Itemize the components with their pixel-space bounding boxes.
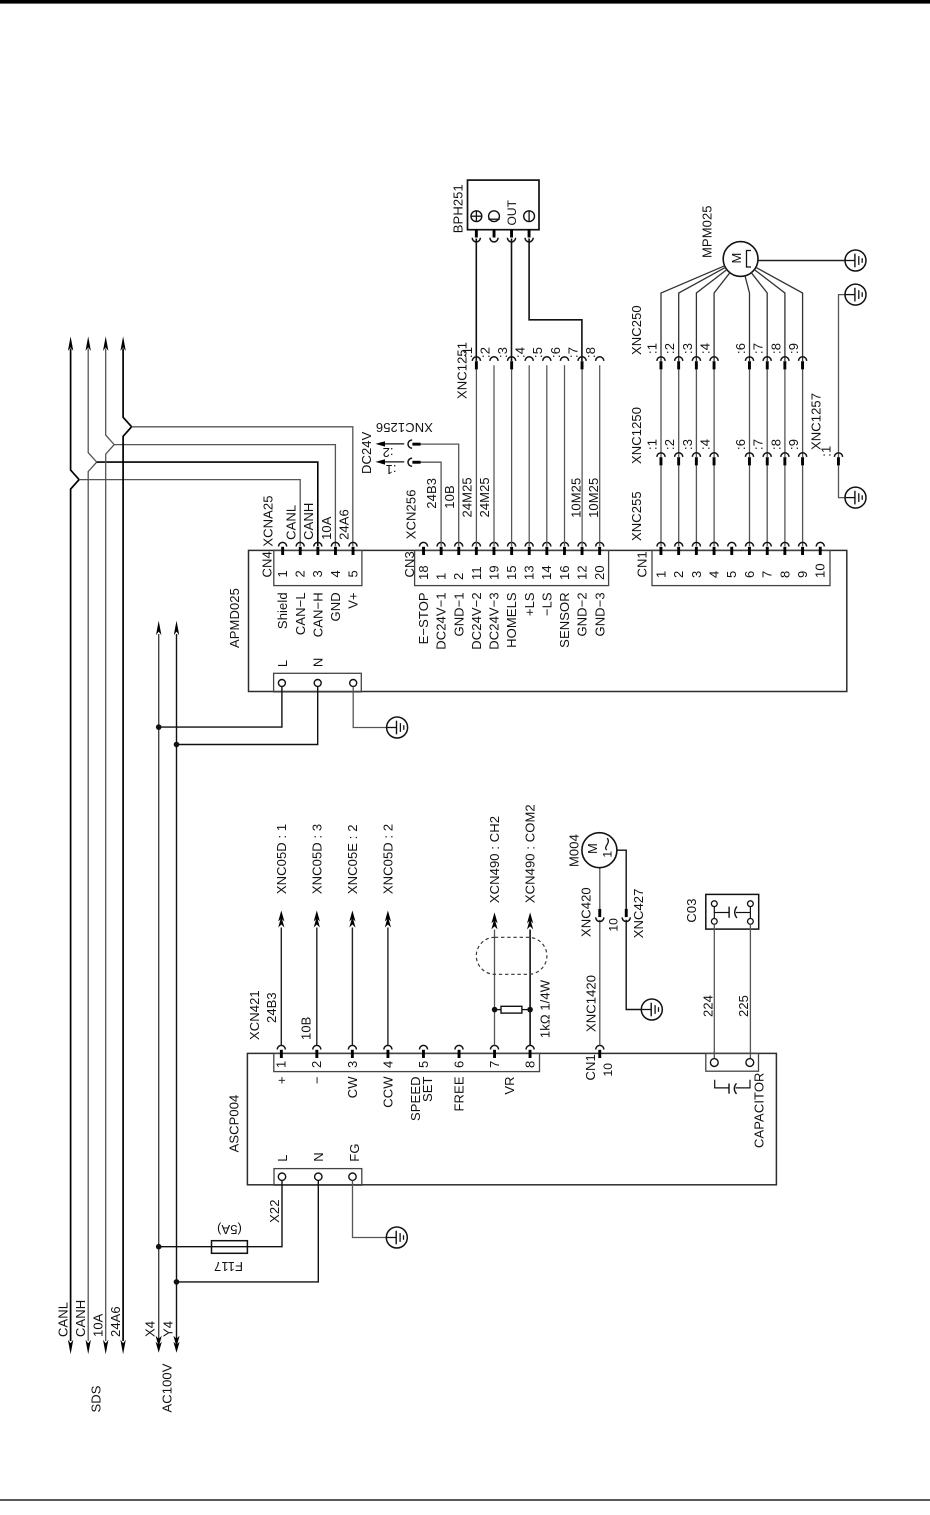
svg-text:4: 4 (380, 1061, 395, 1068)
connector XNC250:3 (692, 357, 700, 361)
svg-text::4: :4 (698, 343, 713, 354)
svg-text:10A: 10A (90, 1313, 105, 1337)
node X4-L junction (156, 724, 162, 730)
svg-text::8: :8 (768, 439, 783, 450)
wire C03 225 (749, 924, 751, 1058)
bus arrow bottom 24A6 (120, 1340, 125, 1355)
svg-text:CANL: CANL (284, 505, 299, 540)
svg-text:8: 8 (523, 1061, 538, 1068)
wire BPH+ to XNC1251:1 (475, 239, 477, 362)
wire XNC1250-CN1 :4 (713, 465, 715, 546)
wire Y4 (176, 634, 178, 1341)
svg-text:7: 7 (487, 1061, 502, 1068)
wire arrow lead :2 (385, 443, 404, 445)
pin XCN421-4 (384, 1045, 392, 1049)
connector CN3 strip (415, 550, 609, 585)
svg-text:4: 4 (707, 571, 722, 578)
svg-text:C03: C03 (684, 898, 699, 922)
arrow Y4 top (174, 621, 179, 636)
wire branch 24A6 to CN4 (132, 427, 353, 546)
pin CN4-3 (314, 542, 322, 546)
svg-text::6: :6 (733, 439, 748, 450)
wire XCN421-8 up (529, 930, 531, 1046)
wire XNC1257 upper (839, 295, 846, 457)
svg-text:3: 3 (310, 570, 325, 577)
node Y4-N2 junction (174, 1279, 180, 1285)
svg-text:CN4: CN4 (259, 551, 274, 577)
svg-text:CANL: CANL (55, 1302, 70, 1337)
pin CN3-18 (419, 542, 427, 546)
connector XNC250:4 (710, 357, 718, 361)
pin CN4-2 (296, 542, 304, 546)
wire XNC427 to earth (626, 920, 641, 1010)
pin CN1-10 ASCP (596, 1045, 604, 1049)
wire XNC1251:7 to CN3 (581, 369, 583, 546)
wire motor fan 8 (756, 267, 803, 361)
wire motor fan 6 (751, 273, 767, 361)
bus arrow bottom 10A (103, 1340, 108, 1355)
pin CN1-4 (710, 542, 718, 546)
terminal L symbol (489, 211, 500, 222)
svg-text:−: − (309, 1076, 324, 1084)
pin XCN421-8 (526, 1045, 534, 1049)
wire XNC250-XNC1250 :7 (766, 369, 768, 457)
wire XNC250-XNC1250 :9 (802, 369, 804, 457)
svg-text:Shield: Shield (275, 592, 290, 629)
connector XNC250:7 (763, 357, 771, 361)
wire XNC1251:1 to CN3 (475, 369, 477, 546)
connector XNC1250:1 (657, 453, 665, 457)
svg-text:M004: M004 (566, 834, 581, 867)
connector XNC1251:5 (543, 357, 551, 361)
connector XNC250:1 (657, 357, 665, 361)
svg-text:6: 6 (742, 571, 757, 578)
pin CN1-8 (781, 542, 789, 546)
wire ASCP N to Y4 (177, 1180, 319, 1282)
svg-text:4: 4 (328, 570, 343, 577)
svg-text::1: :1 (385, 462, 396, 477)
svg-text:1: 1 (434, 573, 449, 580)
wire XCN421-7 up (494, 930, 496, 1046)
svg-text::7: :7 (566, 347, 581, 358)
pin CN1-6 (745, 542, 753, 546)
pin XCN421-6 (455, 1045, 463, 1049)
driver box ASCP004 (247, 1053, 776, 1184)
bus arrow bottom CANL (68, 1340, 73, 1355)
svg-text:2: 2 (671, 571, 686, 578)
svg-text:5: 5 (724, 571, 739, 578)
svg-text:SENSOR: SENSOR (557, 592, 572, 648)
svg-text::4: :4 (513, 347, 528, 358)
svg-text:10B: 10B (299, 1017, 314, 1040)
pin CN1-3 (692, 542, 700, 546)
bus arrow top CANL (68, 336, 73, 351)
connector XNC250:6 (745, 357, 753, 361)
pin CN3-13 (525, 542, 533, 546)
svg-text:+LS: +LS (522, 592, 537, 616)
svg-text:224: 224 (701, 995, 716, 1017)
wire branch 10A to CN4 (114, 445, 335, 547)
earth XNC1257 upper (845, 284, 866, 305)
connector XNC1251:3 (508, 357, 516, 361)
wire motor fan 7 (754, 270, 785, 361)
svg-text:20: 20 (592, 565, 607, 580)
svg-text::1: :1 (644, 343, 659, 354)
wire bus CANL (71, 349, 80, 1342)
svg-text::6: :6 (548, 347, 563, 358)
pin CN3-14 (543, 542, 551, 546)
connector XCN421 strip (274, 1053, 540, 1071)
svg-text:XNC05D : 2: XNC05D : 2 (381, 824, 396, 894)
shield stadium (476, 937, 547, 974)
bus arrow bottom CANH (86, 1340, 91, 1355)
connector XNC1251:8 (596, 357, 604, 361)
wire XCN421-4 up (387, 928, 389, 1046)
svg-text:N: N (311, 1152, 326, 1162)
wire XNC420 to M004 (599, 868, 601, 909)
earth APMD (387, 717, 408, 738)
wire APMD E to earth (353, 687, 386, 728)
resistor 1kohm (501, 1006, 522, 1013)
svg-text:L: L (275, 1154, 290, 1161)
node resistor right (527, 1007, 533, 1013)
wire XNC1250-CN1 :3 (695, 465, 697, 546)
svg-text:24M25: 24M25 (477, 477, 492, 517)
motor M004 (582, 833, 617, 868)
pin BPH251-2 (490, 238, 498, 242)
svg-text::9: :9 (786, 343, 801, 354)
wire bus 10A (106, 349, 115, 1342)
pin CN1-2 (675, 542, 683, 546)
connector ASCP LNFG strip (274, 1169, 362, 1186)
pin XCN421-2 (313, 1045, 321, 1049)
terminal - symbol (524, 211, 535, 222)
wire MPM025 to earth (758, 260, 845, 262)
pin CN3-1 (437, 542, 445, 546)
connector XNC1257:1 (834, 453, 842, 457)
svg-text:GND−3: GND−3 (592, 592, 607, 636)
wire CN1-10 to XNC420 (599, 920, 601, 1046)
svg-text:CANH: CANH (73, 1300, 88, 1337)
wire ASCP FG to earth (353, 1180, 387, 1237)
wire bus 24A6 (123, 349, 132, 1342)
svg-text::2: :2 (477, 347, 492, 358)
svg-text:14: 14 (539, 565, 554, 580)
arrow XNC05D : 3 (314, 911, 320, 922)
connector XNC1250:7 (763, 453, 771, 457)
pin XCN421-5 (419, 1045, 427, 1049)
wire CN3-1 to XNC1256:1 (421, 462, 442, 546)
connector XNC427 (622, 917, 630, 921)
svg-text:XNC420: XNC420 (579, 887, 594, 937)
svg-text:19: 19 (486, 565, 501, 580)
svg-text:7: 7 (760, 571, 775, 578)
svg-text:13: 13 (522, 565, 537, 580)
svg-text:10B: 10B (442, 485, 457, 508)
svg-text:E−STOP: E−STOP (416, 592, 431, 644)
svg-text:16: 16 (557, 565, 572, 580)
pin CN3-15 (508, 542, 516, 546)
svg-text:10: 10 (607, 918, 621, 932)
svg-text:Y4: Y4 (160, 1321, 175, 1337)
wire APMD N to Y4 (177, 687, 318, 745)
svg-text:24M25: 24M25 (460, 477, 475, 517)
connector XNC1251:4 (525, 357, 533, 361)
svg-text:FREE: FREE (452, 1076, 467, 1111)
svg-text:CN1: CN1 (583, 1054, 598, 1080)
svg-text::8: :8 (583, 347, 598, 358)
svg-text:X22: X22 (267, 1199, 282, 1222)
wire XNC1250-CN1 :1 (660, 465, 662, 546)
arrow XNC05D : 1 (278, 911, 284, 922)
wire resistor stub left (495, 1009, 501, 1011)
wire XNC1251:8 to CN3 (599, 365, 601, 546)
pin CN3-2 (455, 542, 463, 546)
arrow X4 top (156, 621, 161, 636)
svg-text:8: 8 (777, 571, 792, 578)
capacitor symbol C03 (713, 907, 715, 919)
pin CN4-4 (331, 542, 339, 546)
connector XNC1256:1 (408, 458, 412, 466)
wire XNC1250-CN1 :2 (678, 465, 680, 546)
svg-text::4: :4 (698, 439, 713, 450)
svg-text:SDS: SDS (88, 1385, 103, 1412)
driver box APMD025 (249, 550, 847, 691)
earth XNC1257 lower (845, 487, 866, 508)
arrow XCN490 : COM2 (527, 912, 533, 923)
terminal C03 (711, 919, 717, 925)
pin CN3-16 (560, 542, 568, 546)
wire M004 to XNC427 (617, 850, 626, 909)
connector CN1 strip (652, 550, 830, 585)
svg-text::7: :7 (751, 343, 766, 354)
pin XCN421-3 (348, 1045, 356, 1049)
svg-text:3: 3 (689, 571, 704, 578)
svg-text:1: 1 (275, 570, 290, 577)
node X4-fuse junction (156, 1244, 162, 1250)
svg-text:CCW: CCW (381, 1076, 396, 1108)
svg-text:2: 2 (293, 570, 308, 577)
connector XNC1250:4 (710, 453, 718, 457)
pin CN1-10 (816, 542, 824, 546)
svg-text:GND−1: GND−1 (451, 592, 466, 636)
svg-text:5: 5 (345, 570, 360, 577)
wire XNC1251:5 to CN3 (546, 365, 548, 546)
bus arrow top CANH (86, 336, 91, 351)
pin BPH251-4 (525, 238, 533, 242)
arrow XCN490 : CH2 (491, 912, 497, 923)
capacitor symbol internal (715, 1080, 729, 1088)
svg-text:225: 225 (736, 995, 751, 1017)
svg-text:X4: X4 (143, 1321, 158, 1337)
svg-text:1: 1 (600, 851, 614, 858)
pin CN3-12 (578, 542, 586, 546)
fuse F117 (212, 1241, 248, 1254)
page bottom rule (0, 1499, 930, 1501)
svg-text:XCN256: XCN256 (404, 489, 419, 539)
arrow Y4 bottom (173, 1342, 179, 1353)
svg-text::3: :3 (680, 343, 695, 354)
wire XNC1251:4 to CN3 (528, 365, 530, 546)
svg-text:10: 10 (601, 1063, 615, 1077)
node Y4-N junction (174, 742, 180, 748)
connector XNC1250:6 (745, 453, 753, 457)
terminal C03 conn b (746, 1059, 754, 1067)
pin CN3-11 (472, 542, 480, 546)
motor MPM025 symbol (747, 251, 752, 268)
connector XNC250:8 (781, 357, 789, 361)
tilde 1-phase (606, 838, 609, 850)
earth MPM025 (845, 250, 866, 271)
svg-text:XNC05D : 3: XNC05D : 3 (309, 824, 324, 894)
connector APMD LN strip (274, 673, 362, 692)
svg-text:V+: V+ (346, 592, 361, 608)
svg-text::3: :3 (680, 439, 695, 450)
wire bus CANH (88, 349, 97, 1342)
svg-text:BPH251: BPH251 (451, 184, 466, 233)
svg-text:10A: 10A (319, 516, 334, 540)
svg-text:24B3: 24B3 (264, 992, 279, 1023)
svg-text:1: 1 (653, 571, 668, 578)
wire motor fan 5 (745, 276, 750, 361)
terminal C03 (748, 901, 754, 907)
svg-text:DC24V−3: DC24V−3 (487, 592, 502, 649)
svg-text:M: M (585, 843, 600, 854)
connector XNC250:9 (798, 357, 806, 361)
wire XNC250-XNC1250 :2 (678, 369, 680, 457)
svg-text:AC100V: AC100V (160, 1363, 175, 1412)
svg-text:CW: CW (345, 1076, 360, 1098)
wire branch CANH to CN4 (97, 462, 318, 546)
arrow XNC05D : 2 (385, 911, 391, 922)
terminal ASCP N (315, 1173, 322, 1180)
terminal C03 (748, 919, 754, 925)
svg-text:12: 12 (575, 565, 590, 580)
svg-text:2: 2 (309, 1061, 324, 1068)
svg-text:XNC1250: XNC1250 (629, 407, 644, 464)
svg-text:XCN490 : CH2: XCN490 : CH2 (487, 816, 502, 903)
wire XNC1250-CN1 :9 (802, 465, 804, 546)
wire BPHOUT to XNC1251:3 (511, 239, 513, 362)
pin XCN421-7 (490, 1045, 498, 1049)
svg-text:M: M (729, 253, 744, 264)
connector C03 strip (706, 1053, 759, 1071)
svg-text:APMD025: APMD025 (227, 588, 242, 648)
capacitor box C03 (706, 894, 759, 929)
terminal APMD E (350, 680, 357, 687)
svg-text:XNC1257: XNC1257 (808, 393, 823, 450)
wire through fuse (212, 1246, 248, 1248)
pin CN4-1 (279, 542, 287, 546)
svg-text:24B3: 24B3 (424, 478, 439, 509)
svg-text:CAN−L: CAN−L (293, 592, 308, 635)
svg-text::7: :7 (751, 439, 766, 450)
wire XNC1251:3 to CN3 (511, 369, 513, 546)
pin BPH251-3 (507, 238, 515, 242)
wire branch CANL to CN4 (79, 480, 300, 547)
connector XNC420 (596, 917, 604, 921)
arrow XNC05E : 2 (349, 911, 355, 922)
terminal APMD N (314, 680, 321, 687)
svg-text:18: 18 (416, 565, 431, 580)
pin CN4-5 (349, 542, 357, 546)
terminal C03 (711, 901, 717, 907)
svg-text:ASCP004: ASCP004 (227, 1095, 242, 1153)
arrow DC24V :1 (376, 459, 386, 464)
svg-text:MPM025: MPM025 (699, 205, 714, 258)
wire C03 224 (713, 924, 715, 1058)
wire XNC250-XNC1250 :1 (660, 369, 662, 457)
svg-text:XNC05E : 2: XNC05E : 2 (345, 824, 360, 894)
svg-text::8: :8 (768, 343, 783, 354)
terminal + symbol (471, 211, 482, 222)
wire motor fan 1 (661, 266, 725, 361)
svg-text:10: 10 (813, 563, 828, 578)
pin CN1-1 (657, 542, 665, 546)
svg-text:XNC427: XNC427 (631, 889, 646, 939)
svg-text::6: :6 (733, 343, 748, 354)
svg-text:DC24V−1: DC24V−1 (434, 592, 449, 649)
svg-text:DC24V−2: DC24V−2 (469, 592, 484, 649)
connector XNC1250:3 (692, 453, 700, 457)
wire resistor stub right (522, 1009, 530, 1011)
svg-text::9: :9 (786, 439, 801, 450)
wire XNC1250-CN1 :7 (766, 465, 768, 546)
arrow X4 bottom (156, 1342, 162, 1353)
svg-text:1kΩ 1/4W: 1kΩ 1/4W (538, 979, 553, 1038)
svg-text:3: 3 (345, 1061, 360, 1068)
svg-text:DC24V: DC24V (359, 431, 374, 474)
terminal ASCP L (278, 1173, 285, 1180)
wire X4 (158, 634, 160, 1341)
pin CN1-7 (763, 542, 771, 546)
pin BPH251-1 (472, 238, 480, 242)
svg-text::2: :2 (662, 343, 677, 354)
wire CN3-2 to XNC1256:2 (421, 444, 459, 546)
svg-text:11: 11 (469, 566, 484, 580)
svg-text:5: 5 (416, 1061, 431, 1068)
svg-text:CN1: CN1 (634, 551, 649, 577)
terminal C03 conn a (710, 1059, 718, 1067)
arrow DC24V :2 (376, 441, 386, 446)
wire motor fan 2 (679, 267, 726, 361)
connector XNC1251:7 (578, 357, 586, 361)
svg-text:CANH: CANH (301, 503, 316, 540)
wire XNC1250-CN1 :6 (749, 465, 751, 546)
wire XNC250-XNC1250 :3 (695, 369, 697, 457)
svg-text:XCN490 : COM2: XCN490 : COM2 (523, 804, 538, 903)
svg-text:CAPACITOR: CAPACITOR (751, 1072, 766, 1148)
svg-text:XNC1251: XNC1251 (454, 342, 469, 399)
svg-text:15: 15 (504, 565, 519, 580)
pin CN1-9 (798, 542, 806, 546)
svg-text::1: :1 (644, 439, 659, 450)
connector XNC1256:2 (408, 440, 412, 448)
earth ASCP (386, 1227, 407, 1248)
wire XNC250-XNC1250 :6 (749, 369, 751, 457)
connector XNC1251:6 (560, 357, 568, 361)
svg-text:SET: SET (420, 1076, 435, 1102)
svg-text::2: :2 (662, 439, 677, 450)
svg-text:HOMELS: HOMELS (504, 592, 519, 648)
motor MPM025 (723, 242, 758, 277)
svg-text:XNC1256: XNC1256 (376, 420, 433, 435)
sensor box BPH251 (468, 180, 540, 230)
svg-text:+: + (274, 1076, 289, 1084)
wire motor fan 4 (714, 273, 730, 361)
connector XNC1250:8 (781, 453, 789, 457)
wire APMD L to X4 (159, 687, 282, 728)
